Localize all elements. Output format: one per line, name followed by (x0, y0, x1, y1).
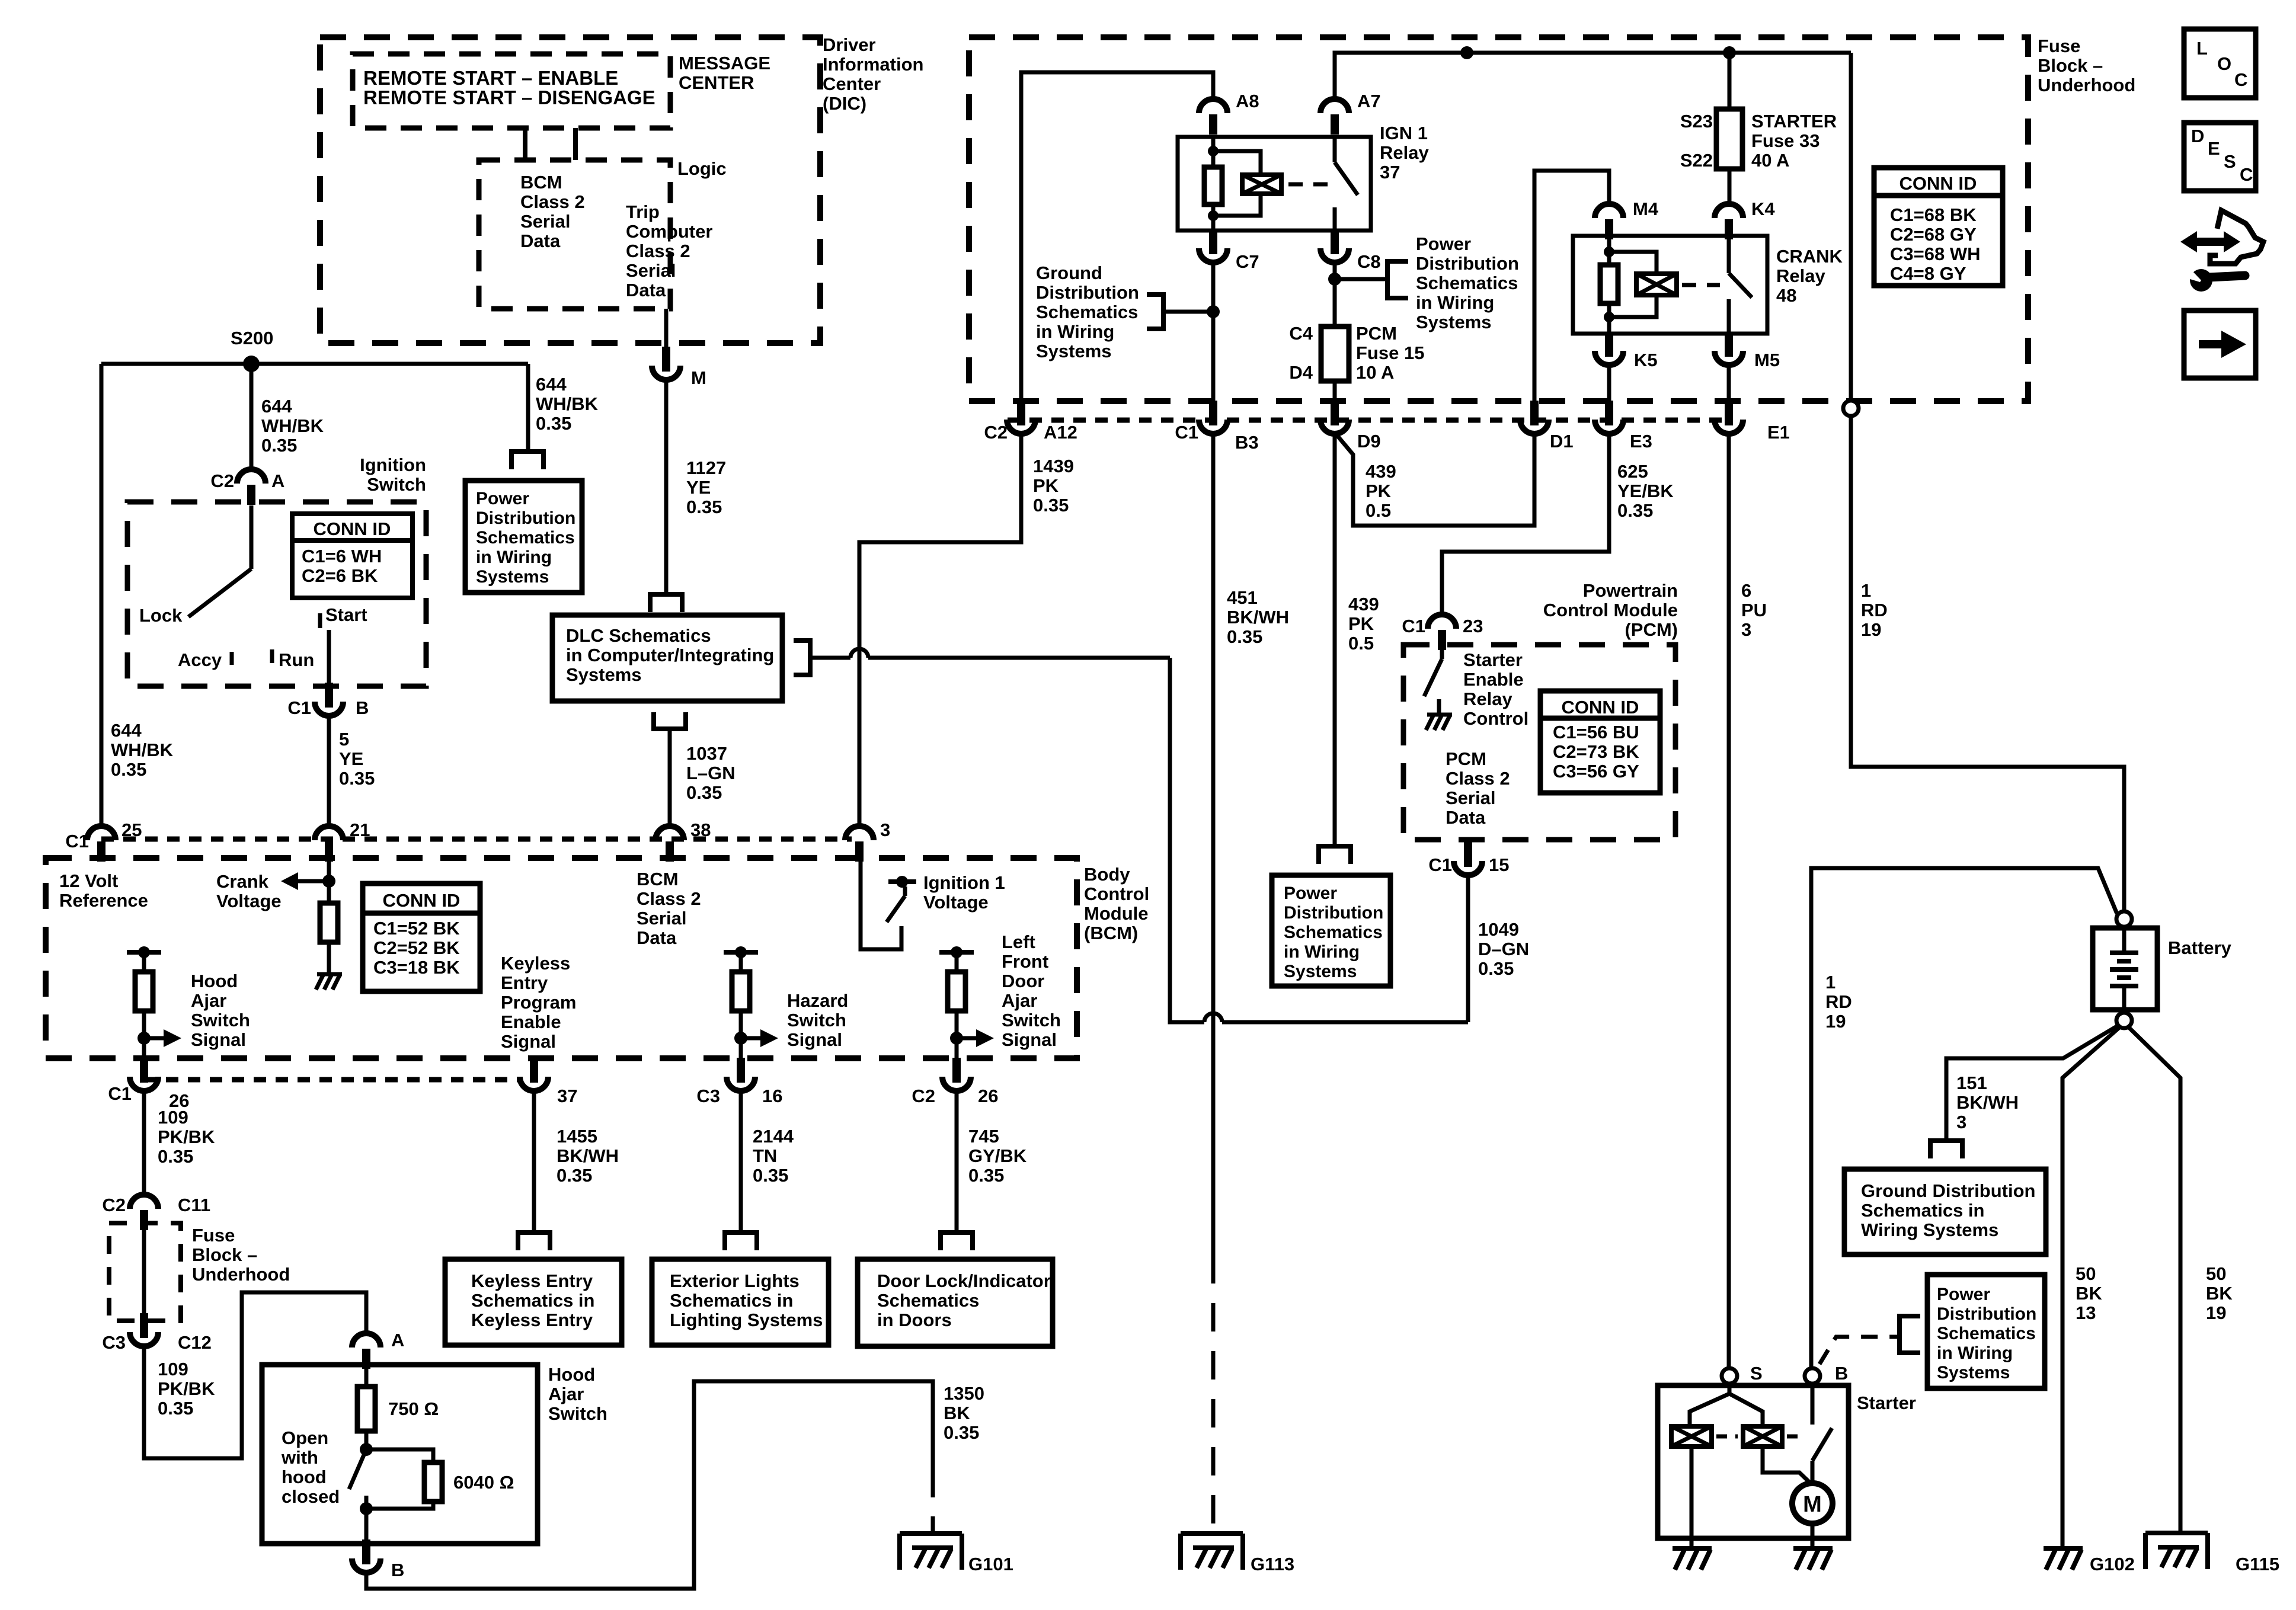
svg-text:Class 2: Class 2 (637, 888, 701, 909)
wire 644 WH/BK horizontal (101, 362, 528, 366)
svg-text:in Wiring: in Wiring (1284, 942, 1360, 962)
svg-text:Fuse: Fuse (192, 1225, 235, 1246)
svg-text:hood: hood (282, 1467, 327, 1487)
wire relay coil top (1211, 137, 1216, 167)
connector C1 pin B3 (1209, 401, 1217, 425)
wire B to starter switch (1811, 1383, 1815, 1425)
svg-text:Data: Data (1446, 807, 1486, 828)
svg-text:STARTER: STARTER (1751, 111, 1837, 132)
wire 1127 YE (664, 380, 669, 594)
svg-text:1: 1 (1861, 580, 1871, 601)
junction crank voltage (322, 875, 335, 888)
sensor circuit hood ajar switch signal (127, 950, 161, 955)
wire MESSAGE CENTER to Logic right (573, 128, 578, 160)
svg-text:in Computer/Integrating: in Computer/Integrating (566, 645, 774, 665)
svg-text:1350: 1350 (944, 1383, 984, 1404)
module box Ignition Switch (127, 502, 426, 686)
svg-text:(BCM): (BCM) (1084, 923, 1138, 943)
svg-text:0.35: 0.35 (339, 768, 375, 789)
wire 151 BK/WH (1946, 1025, 2119, 1141)
connector D1 (1530, 401, 1539, 425)
svg-text:D–GN: D–GN (1478, 939, 1529, 959)
wire hop over A12 wire (850, 649, 868, 658)
arrow crank voltage (298, 879, 329, 884)
wire 50 BK 19 (2128, 1027, 2180, 1533)
connector pin 38 (655, 826, 684, 840)
svg-text:C2: C2 (210, 470, 234, 491)
svg-text:PU: PU (1741, 600, 1767, 620)
junction hood switch top (360, 1443, 373, 1456)
svg-text:C1: C1 (1428, 854, 1452, 875)
svg-text:109: 109 (158, 1107, 188, 1128)
relay box IGN 1 Relay 37 (1178, 137, 1371, 231)
svg-text:Starter: Starter (1857, 1393, 1916, 1413)
svg-text:YE: YE (339, 748, 363, 769)
svg-text:0.5: 0.5 (1348, 633, 1374, 654)
svg-text:Ground Distribution: Ground Distribution (1861, 1180, 2035, 1201)
wire 439 PK down (1333, 434, 1337, 846)
svg-text:Serial: Serial (637, 908, 686, 929)
box Power Distribution Schematics in Wiring Systems (middle) (1272, 875, 1390, 986)
connector C1 pin 25 (87, 826, 116, 840)
svg-text:Driver: Driver (823, 34, 876, 55)
svg-text:C11: C11 (178, 1195, 210, 1215)
ground starter enable relay (1437, 699, 1441, 715)
wire 1455 BK/WH (532, 1091, 536, 1231)
wire 6 PU (1727, 433, 1731, 1369)
svg-text:745: 745 (968, 1126, 999, 1147)
svg-text:0.35: 0.35 (686, 782, 722, 803)
wire 1350 BK dashed to G101 (931, 1470, 935, 1534)
wire Start to C1 pin B (327, 630, 331, 686)
svg-text:23: 23 (1463, 616, 1483, 636)
ground starter solenoid (1673, 1546, 1712, 1551)
svg-text:Schematics: Schematics (1284, 923, 1383, 942)
svg-text:WH/BK: WH/BK (261, 415, 324, 436)
connector M4 (1595, 204, 1623, 218)
box DLC Schematics in Computer/Integrating Systems (552, 615, 782, 701)
wire starter solenoid feeds (1690, 1383, 1729, 1427)
connector pin 37 (530, 1058, 538, 1083)
svg-text:151: 151 (1956, 1073, 1987, 1093)
svg-text:YE: YE (686, 477, 711, 498)
wire 1 RD from fuse block to battery (1851, 416, 2124, 911)
svg-text:Module: Module (1084, 903, 1149, 924)
dotted connector interface BCM top (101, 837, 852, 842)
svg-text:CENTER: CENTER (679, 72, 754, 93)
wire K5 to E3 (1607, 365, 1611, 401)
svg-text:BK: BK (2206, 1283, 2233, 1304)
svg-text:C2=6 BK: C2=6 BK (302, 565, 378, 586)
svg-text:B: B (1835, 1363, 1848, 1384)
svg-text:750 Ω: 750 Ω (388, 1398, 439, 1419)
svg-text:Relay: Relay (1380, 142, 1429, 163)
svg-text:0.35: 0.35 (686, 497, 722, 517)
bracket power distribution (PCM area) (1316, 844, 1353, 849)
svg-text:Entry: Entry (501, 972, 548, 993)
table CONN ID ignition switch (292, 514, 412, 598)
bracket DLC output right (794, 641, 810, 675)
svg-text:A8: A8 (1236, 91, 1259, 111)
relay linkage dashes CRANK (1682, 283, 1720, 287)
bracket exterior lights (722, 1230, 759, 1235)
connector pin 21 (315, 826, 343, 840)
svg-text:C2=52 BK: C2=52 BK (373, 937, 460, 958)
svg-text:Door: Door (1002, 971, 1044, 991)
svg-text:C1=68 BK: C1=68 BK (1890, 204, 1977, 225)
svg-text:C1: C1 (108, 1083, 132, 1104)
svg-text:0.35: 0.35 (968, 1165, 1004, 1186)
wire 50 BK 13 (2062, 1027, 2120, 1548)
svg-text:Ignition: Ignition (360, 454, 426, 475)
svg-text:C1=52 BK: C1=52 BK (373, 918, 460, 939)
svg-text:A: A (391, 1330, 404, 1350)
svg-text:PK: PK (1366, 481, 1392, 501)
wire through fuse block (142, 1230, 146, 1313)
svg-text:40 A: 40 A (1751, 150, 1789, 171)
wire crank coil top (1607, 236, 1611, 265)
connector A hood ajar switch (352, 1333, 380, 1347)
wire 1037 L-GN (668, 729, 672, 826)
dashed wire B to power distribution (1819, 1337, 1900, 1364)
svg-text:19: 19 (1825, 1011, 1846, 1032)
svg-text:Keyless Entry: Keyless Entry (471, 1310, 593, 1330)
svg-text:0.35: 0.35 (557, 1165, 592, 1186)
wire MESSAGE CENTER to Logic left (523, 128, 527, 160)
svg-text:Left: Left (1002, 932, 1035, 952)
svg-text:Ignition 1: Ignition 1 (923, 872, 1005, 893)
bracket ground distribution right (1928, 1138, 1965, 1143)
svg-text:Fuse 15: Fuse 15 (1356, 343, 1424, 363)
svg-text:Switch: Switch (787, 1010, 846, 1030)
svg-text:Keyless: Keyless (501, 953, 570, 974)
svg-text:0.35: 0.35 (1478, 958, 1514, 979)
svg-text:PK/BK: PK/BK (158, 1126, 215, 1147)
svg-text:Schematics: Schematics (1416, 273, 1518, 293)
svg-text:3: 3 (1741, 619, 1751, 640)
contact Accy (230, 652, 234, 665)
svg-text:19: 19 (2206, 1302, 2226, 1323)
bracket DLC output down (651, 726, 688, 731)
svg-text:Lock: Lock (139, 605, 183, 626)
svg-text:Hazard: Hazard (787, 990, 848, 1011)
svg-text:G115: G115 (2236, 1554, 2279, 1574)
svg-text:625: 625 (1617, 461, 1648, 482)
svg-text:6: 6 (1741, 580, 1751, 601)
svg-text:Switch: Switch (1002, 1010, 1061, 1030)
svg-text:Logic: Logic (677, 158, 727, 179)
svg-text:Switch: Switch (367, 474, 426, 495)
svg-text:BK/WH: BK/WH (1956, 1092, 2019, 1113)
svg-text:K5: K5 (1634, 350, 1658, 370)
svg-text:Fuse 33: Fuse 33 (1751, 130, 1819, 151)
svg-text:0.5: 0.5 (1366, 500, 1391, 521)
svg-text:G113: G113 (1251, 1554, 1294, 1574)
wire motor to ground (1811, 1523, 1815, 1548)
connector C2 pin A12 (1017, 401, 1025, 425)
svg-text:C: C (2240, 164, 2253, 185)
svg-text:Class 2: Class 2 (520, 191, 585, 212)
svg-text:C1: C1 (287, 697, 311, 718)
module box Powertrain Control Module (PCM) (1403, 645, 1675, 840)
svg-text:G102: G102 (2090, 1554, 2135, 1574)
junction relay coil top (1208, 146, 1219, 156)
svg-text:B: B (356, 697, 369, 718)
svg-text:Schematics: Schematics (476, 528, 575, 548)
svg-text:Data: Data (520, 231, 561, 251)
svg-text:C3=68 WH: C3=68 WH (1890, 244, 1980, 264)
bracket power distribution (fuse block) (1387, 261, 1408, 298)
wire crank coil loop top (1609, 252, 1657, 274)
svg-text:Ground: Ground (1036, 263, 1102, 283)
svg-text:PK: PK (1033, 475, 1059, 496)
box Ground Distribution Schematics in Wiring Systems (right) (1844, 1169, 2046, 1254)
svg-text:Hood: Hood (548, 1364, 595, 1385)
wire 5 YE (327, 716, 331, 826)
wire ignition switch pole (250, 505, 254, 569)
terminal ring B (1805, 1368, 1820, 1384)
svg-text:B3: B3 (1235, 432, 1259, 453)
svg-text:1455: 1455 (557, 1126, 597, 1147)
svg-text:38: 38 (690, 820, 711, 840)
svg-text:CONN ID: CONN ID (383, 890, 461, 911)
svg-text:3: 3 (880, 820, 890, 840)
svg-text:Switch: Switch (191, 1010, 250, 1030)
svg-text:C8: C8 (1357, 251, 1381, 272)
wire M4 feed from D1 (1534, 171, 1609, 401)
svg-text:BCM: BCM (637, 869, 679, 889)
wire 1049 D-GN (1466, 875, 1470, 1022)
junction crank coil bottom (1604, 312, 1614, 322)
svg-text:C2: C2 (102, 1195, 126, 1215)
svg-text:Voltage: Voltage (216, 891, 282, 911)
wire starter fuse to K4 (1728, 169, 1732, 204)
svg-text:Signal: Signal (501, 1031, 556, 1052)
svg-text:C12: C12 (178, 1332, 212, 1353)
svg-text:0.35: 0.35 (536, 413, 571, 434)
svg-text:Distribution: Distribution (1284, 903, 1383, 923)
wire relay coil bottom (1211, 204, 1216, 231)
connector C3 pin 16 (737, 1058, 745, 1083)
resistor IGN1 relay internal (1204, 167, 1222, 204)
svg-text:C1=6 WH: C1=6 WH (302, 546, 382, 566)
svg-text:B: B (391, 1560, 404, 1580)
module box MESSAGE CENTER display (353, 54, 670, 128)
svg-text:in Wiring: in Wiring (1036, 321, 1114, 342)
connector C2 pin A ignition switch (237, 469, 266, 484)
module box Hood Ajar Switch (262, 1365, 538, 1544)
svg-text:PCM: PCM (1446, 748, 1486, 769)
svg-text:REMOTE START – ENABLE: REMOTE START – ENABLE (363, 67, 618, 89)
svg-text:C1: C1 (1402, 616, 1425, 636)
svg-text:O: O (2217, 53, 2231, 74)
wire 6040 branch bottom (366, 1502, 433, 1509)
table CONN ID PCM (1540, 691, 1660, 793)
wire 6040 branch top (366, 1449, 433, 1462)
terminal ring S (1722, 1368, 1737, 1384)
svg-text:D9: D9 (1357, 431, 1381, 452)
svg-text:C3=56 GY: C3=56 GY (1553, 761, 1639, 782)
svg-text:0.35: 0.35 (1033, 495, 1069, 516)
svg-text:1127: 1127 (686, 457, 726, 478)
svg-text:Control: Control (1084, 884, 1149, 904)
svg-text:K4: K4 (1751, 199, 1775, 219)
svg-text:Class 2: Class 2 (1446, 768, 1510, 789)
wire coil loop bottom (1213, 194, 1261, 216)
switch starter enable relay control (1440, 650, 1444, 659)
svg-text:C2: C2 (912, 1086, 935, 1106)
svg-text:DLC Schematics: DLC Schematics (566, 625, 711, 646)
junction relay coil bottom (1208, 210, 1219, 221)
svg-text:Exterior Lights: Exterior Lights (670, 1270, 800, 1291)
svg-text:E: E (2208, 138, 2220, 159)
svg-text:26: 26 (978, 1086, 998, 1106)
svg-text:Power: Power (1416, 233, 1471, 254)
svg-text:C1: C1 (1175, 422, 1198, 443)
svg-text:C1: C1 (65, 831, 89, 852)
bracket door lock (938, 1230, 975, 1235)
svg-text:Systems: Systems (476, 567, 549, 587)
wire ground distribution tap (1163, 310, 1213, 314)
svg-text:CONN ID: CONN ID (314, 518, 391, 539)
svg-text:C4=8 GY: C4=8 GY (1890, 263, 1966, 284)
wire crank coil bottom (1607, 303, 1611, 334)
svg-text:Schematics in: Schematics in (670, 1290, 793, 1311)
box Keyless Entry Schematics in Keyless Entry (445, 1259, 622, 1345)
resistor CRANK relay internal (1600, 265, 1618, 303)
terminal ring fuse block battery feed (1843, 401, 1859, 416)
svg-text:1037: 1037 (686, 743, 727, 764)
wire coil1 to ground (1690, 1446, 1694, 1548)
solenoid linkage dashes (1716, 1435, 1738, 1439)
svg-text:Fuse: Fuse (2038, 36, 2080, 56)
ground BCM internal (317, 972, 342, 977)
ground G113 (1181, 1531, 1243, 1536)
svg-text:Class 2: Class 2 (626, 241, 690, 261)
sensor circuit left front door ajar switch signal (939, 950, 974, 955)
svg-text:Keyless Entry: Keyless Entry (471, 1270, 593, 1291)
junction power distribution tap (1328, 273, 1341, 286)
svg-text:1439: 1439 (1033, 456, 1074, 476)
wire A7 feed bus (1335, 53, 1851, 99)
icon box DESC (2184, 123, 2256, 191)
bracket DLC input (648, 592, 685, 597)
svg-text:L–GN: L–GN (686, 763, 736, 783)
svg-text:Powertrain: Powertrain (1583, 580, 1678, 601)
connector M (662, 347, 670, 372)
connector K5 (1605, 332, 1613, 357)
svg-text:E3: E3 (1630, 431, 1652, 452)
svg-text:Run: Run (279, 649, 314, 670)
relay switch blade CRANK (1729, 273, 1752, 297)
svg-text:S: S (2224, 151, 2236, 172)
svg-text:3: 3 (1956, 1112, 1966, 1132)
dotted connector interface BCM bottom (144, 1077, 518, 1083)
switch blade hood ajar (349, 1449, 366, 1489)
box Power Distribution Schematics in Wiring Systems (starter) (1927, 1275, 2045, 1388)
svg-text:0.35: 0.35 (944, 1422, 979, 1443)
svg-text:L: L (2196, 38, 2208, 59)
wire DLC to PCM serial data (810, 656, 850, 660)
svg-text:Battery: Battery (2168, 937, 2232, 958)
svg-text:0.35: 0.35 (1227, 626, 1262, 647)
bracket keyless entry (516, 1230, 552, 1235)
resistor 6040 ohm (424, 1462, 442, 1502)
connector C2 pin C11 (130, 1195, 158, 1209)
module box Body Control Module (BCM) (46, 858, 1077, 1058)
svg-text:RD: RD (1861, 600, 1888, 620)
wire switch to motor (1811, 1461, 1815, 1483)
wire to switch (364, 1431, 369, 1449)
svg-text:TN: TN (753, 1145, 777, 1166)
wire hop over B3 wire (1204, 1013, 1222, 1022)
table CONN ID fuse block (1874, 168, 2003, 286)
svg-text:Start: Start (325, 604, 367, 625)
svg-text:37: 37 (1380, 162, 1400, 183)
svg-text:BK: BK (944, 1403, 970, 1423)
svg-text:A12: A12 (1044, 422, 1077, 443)
connector C1 pin 15 (1464, 842, 1472, 867)
svg-text:WH/BK: WH/BK (111, 740, 174, 760)
bracket ground distribution (1147, 295, 1163, 329)
svg-text:Systems: Systems (1036, 341, 1112, 361)
svg-text:50: 50 (2076, 1263, 2096, 1284)
module box Driver Information Center (DIC) (320, 37, 820, 343)
svg-text:PCM: PCM (1356, 323, 1397, 344)
svg-text:19: 19 (1861, 619, 1881, 640)
svg-text:Enable: Enable (1463, 669, 1524, 690)
svg-text:PK: PK (1348, 613, 1374, 634)
svg-text:CONN ID: CONN ID (1900, 173, 1977, 194)
svg-text:S: S (1750, 1363, 1763, 1384)
svg-text:S23: S23 (1680, 111, 1713, 132)
svg-text:2144: 2144 (753, 1126, 794, 1147)
junction at starter fuse bus (1723, 46, 1736, 59)
svg-text:(PCM): (PCM) (1625, 619, 1678, 640)
svg-text:Reference: Reference (59, 890, 148, 911)
bracket to Power Distribution box (509, 449, 546, 454)
svg-text:C1=56 BU: C1=56 BU (1553, 722, 1639, 742)
svg-text:Voltage: Voltage (923, 892, 989, 913)
terminal ring battery positive (2116, 911, 2132, 927)
svg-text:Schematics in: Schematics in (471, 1290, 594, 1311)
relay switch lower contact IGN1 (1333, 207, 1337, 231)
starter switch blade (1812, 1428, 1832, 1461)
relay linkage dashes IGN1 (1288, 183, 1328, 187)
ground starter motor (1793, 1546, 1833, 1551)
connector C2 pin 26 (952, 1058, 961, 1083)
wire coil loop top (1213, 151, 1261, 175)
relay box CRANK Relay 48 (1573, 236, 1767, 334)
wire crank coil loop bottom (1609, 295, 1657, 317)
svg-text:25: 25 (121, 820, 142, 840)
svg-text:C2=68 GY: C2=68 GY (1890, 224, 1977, 245)
svg-text:Power: Power (476, 489, 529, 508)
resistor 750 ohm (357, 1387, 375, 1431)
switch blade ignition (Lock position) (188, 569, 251, 617)
svg-text:Computer: Computer (626, 221, 712, 242)
connector pin 3 (845, 826, 874, 840)
svg-text:Serial: Serial (1446, 788, 1495, 808)
svg-text:10 A: 10 A (1356, 362, 1394, 383)
wire 439 PK to D1 jog (1335, 433, 1534, 526)
bracket power distribution starter (1900, 1316, 1920, 1353)
icon vehicle outline with arrow and wrench (2210, 210, 2263, 264)
svg-text:Accy: Accy (178, 649, 222, 670)
ground G115 (2145, 1531, 2208, 1535)
svg-text:C7: C7 (1236, 251, 1259, 272)
connector E1 (1725, 401, 1733, 425)
